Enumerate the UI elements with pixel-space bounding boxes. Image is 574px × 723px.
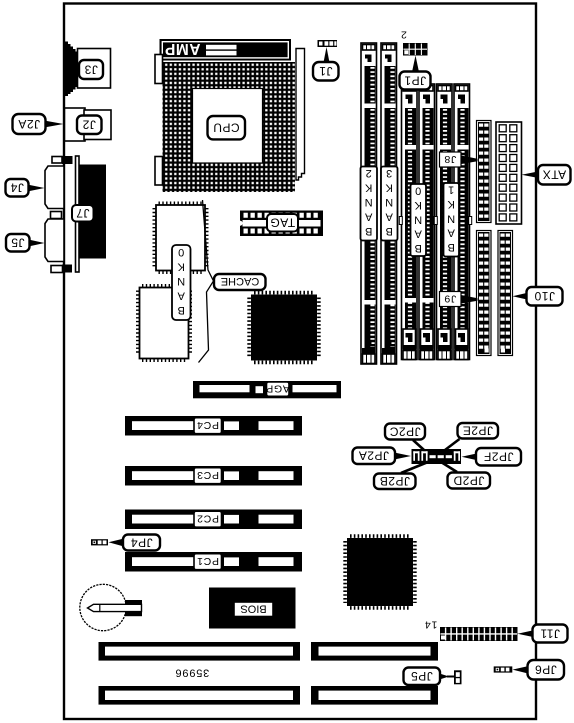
header JP6 — [494, 666, 513, 672]
callout J1 — [313, 47, 339, 81]
svg-text:A: A — [177, 290, 185, 302]
DIMM slot 3 — [399, 84, 419, 360]
svg-text:ATX: ATX — [542, 168, 566, 182]
svg-text:CPU: CPU — [213, 121, 240, 135]
callout J2A — [13, 114, 64, 134]
svg-text:K: K — [364, 182, 372, 194]
connector J2 — [65, 108, 112, 141]
label CPU — [208, 116, 246, 139]
label BANK0 cache — [172, 245, 191, 320]
svg-text:PC1: PC1 — [196, 555, 219, 567]
svg-text:CACHE: CACHE — [221, 275, 260, 287]
svg-text:JP5: JP5 — [411, 669, 433, 683]
jumper block JP2 — [412, 449, 462, 464]
jumper stems — [396, 439, 477, 473]
callout JP2A — [353, 448, 396, 465]
battery — [80, 584, 142, 630]
svg-text:JP2C: JP2C — [389, 424, 420, 438]
svg-text:JP2A: JP2A — [358, 449, 389, 463]
svg-text:J9: J9 — [444, 292, 457, 304]
ISA slot 2 left — [99, 686, 301, 705]
svg-text:J10: J10 — [534, 289, 555, 303]
svg-text:AGP: AGP — [266, 383, 290, 395]
callout JP2B — [374, 474, 416, 490]
DIMM slot 5 — [434, 84, 454, 360]
socket lever tabs — [155, 55, 163, 84]
connector ATX power — [496, 122, 522, 224]
callout J9 — [440, 292, 478, 307]
svg-text:JP2E: JP2E — [462, 424, 493, 438]
port bracket small top — [52, 157, 62, 164]
AMP slot — [160, 39, 292, 61]
connector J5 D-sub — [45, 219, 64, 262]
callout ATX — [522, 165, 571, 185]
svg-text:TAG: TAG — [270, 216, 295, 230]
ISA slot 2 right — [311, 686, 438, 705]
TAG SRAM chip — [237, 211, 323, 237]
header J11 — [440, 627, 518, 641]
svg-text:2: 2 — [400, 29, 407, 41]
ISA slot 1 left — [99, 642, 301, 661]
PCI slot PC4 — [125, 416, 302, 436]
svg-text:J4: J4 — [10, 181, 24, 195]
PCI slot PC3 — [125, 466, 302, 486]
DIMM slot 1 — [361, 43, 377, 364]
callout J11 — [518, 625, 568, 643]
svg-text:0: 0 — [415, 185, 421, 197]
svg-text:JP1: JP1 — [404, 73, 426, 87]
CPU socket — [163, 62, 296, 192]
north bridge chip — [249, 293, 319, 363]
svg-text:PC2: PC2 — [196, 513, 219, 525]
connector J3 — [78, 49, 111, 89]
callout JP2C — [385, 424, 425, 440]
svg-text:N: N — [414, 213, 422, 225]
label TAG — [267, 214, 298, 232]
callout J5 — [6, 234, 45, 252]
svg-text:14: 14 — [424, 619, 437, 631]
svg-text:A: A — [364, 211, 372, 223]
connector J10 strip — [498, 231, 513, 356]
label BANK1 — [444, 183, 460, 257]
svg-text:J7: J7 — [76, 206, 90, 220]
callout JP2D — [448, 473, 491, 489]
BIOS chip — [209, 588, 296, 629]
DIMM slot 2 — [381, 43, 397, 364]
svg-text:35996: 35996 — [175, 667, 210, 679]
svg-text:K: K — [177, 261, 185, 273]
retention bracket — [296, 49, 305, 181]
svg-text:J2A: J2A — [18, 117, 40, 131]
callout J4 — [6, 179, 45, 197]
svg-text:J8: J8 — [444, 153, 457, 165]
svg-text:0: 0 — [178, 246, 184, 258]
port bracket small bottom — [51, 266, 63, 273]
svg-text:K: K — [414, 199, 422, 211]
AGP slot — [193, 381, 341, 398]
cache bracket — [199, 200, 214, 363]
svg-text:A: A — [385, 211, 393, 223]
svg-text:PC4: PC4 — [196, 419, 219, 431]
ISA slot 1 right — [311, 642, 438, 661]
small divider — [51, 212, 62, 219]
svg-text:JP2F: JP2F — [483, 450, 513, 464]
svg-text:B: B — [448, 241, 455, 253]
svg-text:3: 3 — [386, 167, 392, 179]
callout JP2F — [476, 448, 521, 466]
callout J8 — [440, 152, 478, 167]
svg-text:1: 1 — [448, 184, 454, 196]
label BANK2 — [361, 167, 378, 241]
svg-text:J1: J1 — [319, 64, 333, 78]
super IO chip — [345, 536, 415, 608]
svg-text:JP6: JP6 — [535, 663, 557, 677]
svg-text:B: B — [178, 304, 185, 316]
svg-text:B: B — [386, 225, 393, 237]
svg-text:K: K — [447, 198, 455, 210]
connector J4 D-sub — [45, 166, 64, 209]
callout JP6 — [513, 660, 565, 680]
svg-text:A: A — [447, 227, 455, 239]
svg-text:B: B — [415, 242, 422, 254]
callout JP1 — [400, 56, 431, 90]
callout JP4 — [109, 535, 161, 551]
svg-text:JP4: JP4 — [130, 535, 152, 549]
J3 keyboard connector shield — [64, 42, 78, 97]
svg-text:N: N — [177, 275, 185, 287]
svg-text:B: B — [365, 225, 372, 237]
callout JP5 — [404, 668, 455, 686]
svg-text:N: N — [447, 212, 455, 224]
connector J9 strip — [477, 231, 492, 356]
header JP5 — [454, 670, 462, 684]
cache chip 2 — [138, 286, 191, 361]
svg-text:J2: J2 — [82, 118, 96, 132]
svg-text:2: 2 — [366, 167, 372, 179]
callout CACHE — [214, 274, 266, 290]
cache chip 1 — [154, 203, 207, 272]
header J1 — [318, 40, 338, 47]
connector J7 parallel port body — [79, 165, 107, 259]
header JP1 — [403, 43, 428, 56]
callout JP2E — [458, 423, 499, 439]
label BANK3 — [381, 167, 398, 241]
svg-text:N: N — [385, 196, 393, 208]
svg-text:JP2D: JP2D — [453, 473, 484, 487]
svg-text:J3: J3 — [84, 62, 98, 76]
callout J10 — [513, 287, 563, 306]
svg-text:JP2B: JP2B — [379, 474, 410, 488]
svg-text:K: K — [385, 182, 393, 194]
svg-text:J5: J5 — [11, 236, 25, 250]
svg-text:J11: J11 — [540, 627, 560, 641]
bracket strip — [76, 156, 80, 272]
DIMM slot 4 — [417, 84, 437, 360]
svg-text:BIOS: BIOS — [240, 602, 266, 614]
connector J8 strip — [477, 121, 492, 223]
svg-text:PC3: PC3 — [196, 469, 219, 481]
svg-text:AMP: AMP — [165, 40, 201, 57]
svg-text:N: N — [365, 196, 373, 208]
header JP4 — [91, 539, 108, 545]
DIMM slot 6 — [452, 84, 472, 360]
svg-text:A: A — [414, 228, 422, 240]
PCI slot PC1 — [125, 552, 302, 572]
label J7 — [72, 205, 94, 222]
PCI slot PC2 — [125, 510, 302, 530]
label BANK0 — [411, 184, 427, 256]
